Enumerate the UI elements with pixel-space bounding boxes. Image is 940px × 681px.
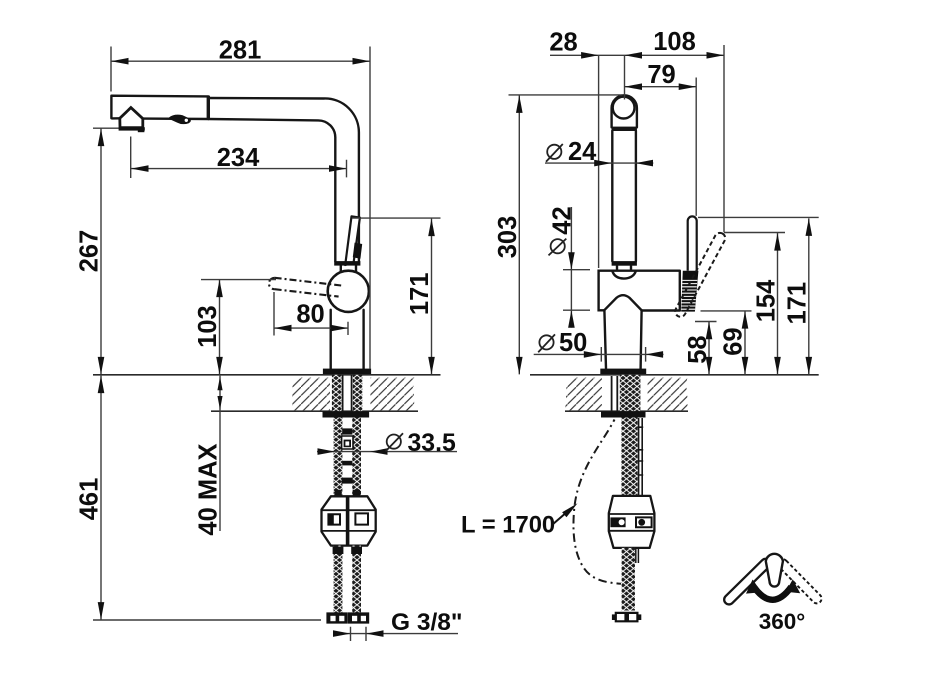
svg-text:281: 281 [219,37,262,65]
tube (right view) [612,131,636,262]
body column (right view) [604,310,641,368]
tube dome top [612,95,637,127]
base flange [323,369,371,375]
pull knob circle [613,97,635,119]
dim 40 MAX [219,376,221,531]
dim 461 [93,376,321,620]
dim 171 left [352,218,441,374]
hose weight block (right view) [609,496,655,548]
aerator bottom bar [119,127,145,130]
svg-text:154: 154 [752,279,780,322]
handle knurled boss [681,271,698,312]
aerator tip (pentagon) [120,108,143,128]
hatched countertop (right view) [565,378,603,411]
svg-text:40 MAX: 40 MAX [195,443,223,535]
neck (right view) [617,266,631,271]
neck below joint [341,266,356,273]
base flange (right view) [600,369,646,375]
dim diameter 50 [534,347,664,362]
tube fillet into body [612,271,636,279]
svg-text:303: 303 [494,216,522,259]
dim 103 [201,280,276,375]
body cone (tent) [604,295,642,310]
svg-text:L = 1700: L = 1700 [461,512,555,539]
dim 69 [701,311,752,375]
dashed lever (alternate position) [269,278,342,297]
svg-text:79: 79 [647,61,675,89]
handle knurl boss (left view) [353,243,362,259]
pivot pin [766,554,783,587]
dim G 3/8" [333,627,458,641]
body (right view) [599,271,680,311]
dim diameter 42 [563,207,590,328]
pull-out hose dash-dot curve [573,420,621,584]
dim 171 right [698,217,819,374]
svg-text:24: 24 [568,138,597,166]
ball joint [328,271,369,312]
dome ring lines [612,127,637,131]
central shank fittings [342,428,352,434]
bottom hose fitting (right view) [616,613,638,621]
svg-text:69: 69 [720,327,748,355]
solid handle (left view) [345,216,360,265]
shank through counter [620,375,641,411]
G3/8 hex nuts [327,613,347,623]
dim 267 [93,128,119,374]
dim 28 and 108 [550,45,724,268]
countertop surface (right view) [530,374,819,376]
left arm (solid) [722,557,772,607]
tube joint ring [334,261,360,266]
dim 154 [724,233,785,375]
countertop underside line [211,410,418,412]
svg-text:28: 28 [549,29,577,57]
handle dashed (tilted position) [673,231,727,319]
threaded rods through countertop [332,375,341,411]
dim 234 [131,137,347,179]
locknut [323,411,370,417]
hose end nubs above block [335,490,342,497]
svg-text:171: 171 [406,273,434,316]
dim diameter 24 [545,162,653,164]
svg-text:360°: 360° [759,609,806,634]
dim 80 [274,292,348,336]
hoses below block [334,546,343,614]
dim 79 [625,78,697,216]
right arm (dashed) [776,557,824,605]
tube joint ring (right view) [612,261,637,266]
svg-text:234: 234 [217,144,260,172]
svg-text:42: 42 [548,206,576,234]
spout spray head outline [111,96,208,119]
dim 303 [509,95,623,375]
countertop hatched section [291,378,330,411]
rotation arc arrow [754,587,791,600]
locknut (right view) [601,411,646,417]
countertop surface line [93,374,441,376]
svg-text:103: 103 [194,305,222,348]
hose connector block (left view) [322,496,376,545]
svg-text:461: 461 [76,478,104,521]
svg-text:80: 80 [296,301,324,329]
svg-text:108: 108 [653,28,696,56]
dim 58 [695,322,717,375]
body column (left view) [331,310,364,369]
svg-text:267: 267 [76,230,104,273]
hose below weight [622,548,635,611]
hose below locknut [621,418,637,496]
handle solid (right view) [688,216,697,270]
dim 281 [111,47,370,370]
svg-text:33.5: 33.5 [408,430,456,457]
threaded rods below locknut [334,418,343,496]
svg-text:50: 50 [559,329,587,357]
svg-text:171: 171 [784,282,812,325]
spout tube top and outer corner [208,98,359,261]
release clip detail [168,115,190,125]
svg-text:58: 58 [684,335,712,363]
dim diameter 33.5 [317,451,457,453]
countertop underside (right view) [565,410,688,412]
spout tube inner line and inner corner [208,119,335,261]
spray head / tube divider [207,96,210,120]
svg-text:G 3/8": G 3/8" [391,609,463,636]
